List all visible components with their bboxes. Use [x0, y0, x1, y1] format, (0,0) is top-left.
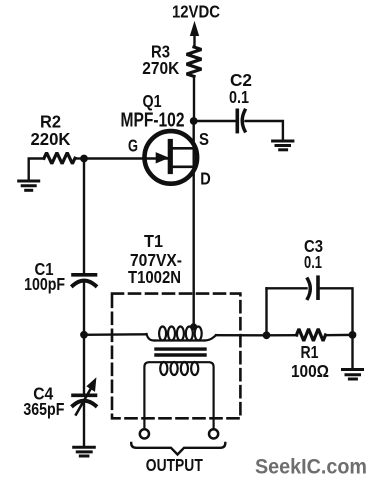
ground (R1): [343, 368, 363, 371]
wire node down to C4: [83, 335, 85, 394]
wire R1 to node: [326, 334, 353, 337]
inductor T1 primary exit swoop: [205, 335, 217, 340]
svg-text:0.1: 0.1: [229, 87, 249, 107]
node R1 left junction: [263, 331, 271, 339]
svg-text:T1: T1: [144, 231, 163, 251]
transformer T1 dashed box: [112, 294, 240, 419]
node gate junction: [80, 155, 88, 163]
svg-text:100Ω: 100Ω: [291, 361, 329, 381]
inductor T1 secondary loop 2: [171, 362, 178, 375]
inductor T1 primary entry swoop: [147, 334, 155, 341]
wire node to primary: [84, 333, 147, 336]
transformer T1 core bar 2: [156, 353, 205, 356]
svg-text:365pF: 365pF: [23, 399, 64, 419]
inductor T1 secondary loop 3: [181, 362, 188, 375]
wire node to R1: [267, 334, 298, 336]
transistor Q1 drain lead: [173, 166, 194, 169]
ground (C4): [74, 446, 95, 449]
node drain tap dot: [190, 323, 197, 330]
inductor T1 primary baseline: [155, 339, 205, 341]
svg-text:MPF-102: MPF-102: [121, 110, 185, 132]
inductor T1 secondary loop 1: [160, 362, 167, 375]
svg-text:220K: 220K: [31, 129, 71, 149]
wire node to ground: [351, 335, 353, 368]
svg-text:G: G: [128, 136, 138, 156]
wire R3 to node: [193, 76, 195, 121]
node output terminal right: [209, 429, 218, 438]
inductor T1 primary loop 5: [195, 327, 202, 341]
svg-text:R1: R1: [301, 342, 319, 362]
inductor T1 primary loop 4: [186, 327, 193, 341]
node R1 right junction: [349, 331, 357, 339]
wire C1 to node: [83, 281, 85, 335]
wire C3 right: [320, 288, 353, 335]
transistor Q1 gate arrowhead: [156, 153, 168, 163]
wire gate: [84, 157, 168, 159]
wire C4 to ground: [83, 403, 85, 446]
node output terminal left: [140, 429, 149, 438]
wire R2 ground stub: [29, 159, 44, 180]
ground (R2): [19, 180, 39, 183]
wire gate node down to C1: [83, 159, 85, 273]
node 12VDC supply arrow: [193, 33, 195, 47]
wire drain rail vertical: [192, 121, 194, 327]
svg-text:S: S: [199, 129, 209, 149]
inductor T1 primary loop 2: [168, 327, 175, 341]
capacitor C1: [73, 273, 96, 277]
wire C2 to ground: [246, 121, 283, 140]
resistor R3: [187, 47, 202, 76]
ground (C2): [273, 140, 293, 143]
output brace: [131, 443, 225, 455]
wire C3 branch left vertical: [265, 288, 267, 335]
svg-text:D: D: [200, 169, 211, 189]
svg-text:SeekIC.com: SeekIC.com: [255, 456, 367, 479]
transistor Q1 source lead: [173, 147, 194, 150]
svg-text:100pF: 100pF: [24, 274, 65, 294]
capacitor C2: [236, 110, 240, 131]
svg-text:270K: 270K: [142, 58, 179, 78]
node junction top: [190, 117, 198, 125]
svg-text:12VDC: 12VDC: [172, 2, 220, 22]
inductor T1 primary loop 1: [159, 327, 166, 341]
inductor T1 secondary outline: [144, 362, 213, 429]
wire node to C2: [194, 120, 235, 122]
svg-text:Q1: Q1: [143, 91, 162, 111]
svg-text:OUTPUT: OUTPUT: [146, 455, 203, 475]
transistor Q1 channel bar: [168, 142, 173, 172]
transformer T1 core bar 1: [156, 347, 205, 350]
capacitor C4 arrow: [76, 387, 92, 415]
resistor R1: [297, 329, 326, 341]
svg-text:T1002N: T1002N: [128, 267, 181, 287]
capacitor C3: [308, 279, 311, 299]
op-amp Q1 transistor circle: [145, 131, 198, 184]
svg-text:0.1: 0.1: [304, 252, 322, 272]
inductor T1 primary loop 3: [177, 327, 184, 341]
wire primary to right: [216, 334, 267, 336]
wire C3 left: [267, 287, 307, 289]
wire R2 to node: [75, 157, 84, 159]
capacitor C4 variable: [73, 393, 96, 397]
node primary left junction: [80, 331, 88, 339]
inductor T1 secondary loop 4: [191, 362, 198, 375]
resistor R2: [44, 153, 75, 164]
